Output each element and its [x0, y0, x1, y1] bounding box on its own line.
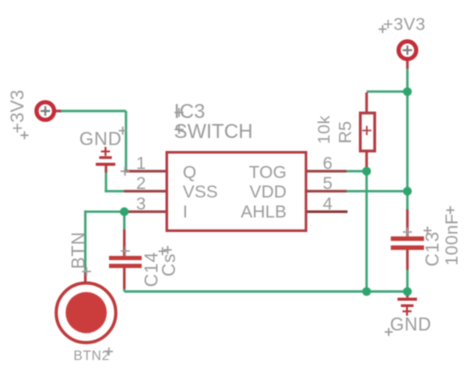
svg-text:+3V3: +3V3 — [7, 90, 28, 134]
node cross IC3 text — [175, 108, 184, 117]
pin 6 — [306, 170, 347, 173]
node cross IC origin — [121, 167, 130, 176]
IC3 body rectangle — [167, 152, 306, 230]
node cross Cs label — [164, 246, 172, 254]
node cross C14 label — [159, 247, 167, 255]
node cross +3V3 left origin — [21, 131, 29, 139]
resistor R5 — [360, 113, 374, 151]
node cross GND-top label origin — [119, 127, 127, 135]
svg-text:1: 1 — [136, 153, 146, 173]
wire pin 5 to right rail — [347, 190, 408, 192]
svg-text:C13: C13 — [423, 231, 443, 266]
ground symbol bottom — [398, 298, 418, 316]
junction node bottom rail right / GND — [403, 287, 412, 296]
svg-text:IC3: IC3 — [174, 101, 205, 123]
svg-text:R5: R5 — [335, 121, 355, 143]
wire R5 bottom down to rail — [365, 171, 367, 291]
svg-text:TOG: TOG — [249, 162, 287, 182]
svg-text:10k: 10k — [315, 115, 334, 144]
node cross +3V3 right origin — [379, 25, 387, 33]
wire bottom rail — [124, 290, 407, 292]
wire red stub C13 bottom — [406, 250, 409, 270]
capacitor C13 — [391, 236, 424, 250]
svg-text:I: I — [183, 202, 188, 222]
wire red stub GND bottom — [406, 292, 409, 298]
node cross C13 origin — [403, 228, 412, 237]
svg-text:6: 6 — [323, 153, 333, 173]
supply +3V3 left — [37, 102, 55, 120]
svg-text:VSS: VSS — [183, 182, 218, 202]
svg-text:BTN: BTN — [69, 232, 89, 270]
svg-text:GND: GND — [390, 315, 432, 335]
svg-text:2: 2 — [136, 173, 146, 193]
svg-text:BTN2: BTN2 — [74, 348, 110, 363]
junction node +3V3 right — [403, 87, 412, 96]
junction node R5/pin6 — [362, 167, 371, 176]
wire red stub R5 bottom — [365, 152, 368, 172]
wire red stub C13 top — [406, 210, 409, 238]
wire GND top to pin 2 — [105, 172, 124, 191]
wire red stub R5 top — [365, 93, 368, 114]
node cross BTN2 label — [105, 348, 113, 356]
capacitor C14 — [109, 256, 142, 268]
wire red stub button BTN2 — [84, 272, 87, 284]
pin 4 — [306, 210, 348, 213]
node cross SWITCH text — [175, 125, 184, 134]
node cross C14 origin — [121, 247, 130, 256]
wire red stub C14 bottom — [123, 268, 126, 290]
svg-text:+3V3: +3V3 — [383, 14, 426, 34]
svg-text:GND: GND — [79, 128, 122, 149]
wire BTN net pin 3 to button and C14 — [85, 210, 124, 291]
node cross GND bottom label — [385, 328, 393, 336]
junction node pin5/right rail — [403, 187, 412, 196]
pin 3 — [124, 210, 167, 213]
node cross button origin — [82, 267, 91, 276]
pin 5 — [306, 190, 347, 193]
button BTN2 — [56, 283, 116, 343]
node cross 100nF label — [446, 206, 454, 214]
wire red stub C14 top — [123, 230, 126, 256]
node cross C13 label — [424, 227, 432, 235]
svg-text:5: 5 — [323, 173, 333, 193]
svg-text:Q: Q — [183, 162, 197, 182]
junction node bottom rail left — [362, 287, 371, 296]
wire pin 6 to R5 bottom — [347, 170, 367, 172]
supply +3V3 right — [399, 41, 417, 59]
wire right vertical — [406, 68, 408, 292]
svg-text:AHLB: AHLB — [241, 202, 287, 222]
pin 1 — [124, 170, 167, 173]
wire red stub at +3V3 right — [406, 60, 409, 69]
svg-text:Cs: Cs — [159, 253, 179, 277]
wire +3V3 left to pin 1 — [58, 111, 126, 171]
pin 2 — [124, 190, 167, 193]
junction node pin3/BTN/C14 — [120, 207, 129, 216]
wire red stub at +3V3 left — [56, 110, 62, 113]
svg-text:4: 4 — [323, 194, 333, 214]
svg-text:VDD: VDD — [250, 182, 287, 202]
wire +3V3 right branch to R5 top — [367, 90, 408, 92]
svg-text:SWITCH: SWITCH — [174, 121, 253, 143]
ground symbol top (mirrored) — [96, 147, 116, 166]
svg-text:100nF: 100nF — [442, 213, 462, 265]
wire red stub GND top — [105, 165, 108, 173]
svg-text:3: 3 — [136, 194, 146, 214]
